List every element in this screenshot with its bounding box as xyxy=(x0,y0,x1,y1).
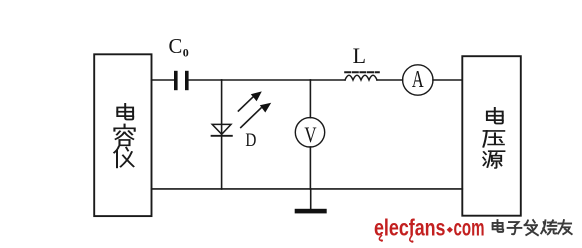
watermark: elecfans.com logo text xyxy=(374,215,485,243)
watermark: curl under f xyxy=(410,236,412,242)
wire: capacitance meter output to C0 left plate xyxy=(152,79,175,81)
capacitor C0 xyxy=(174,71,189,90)
voltmeter V xyxy=(295,118,324,147)
glyph 仪 (of 电容仪) xyxy=(114,147,133,168)
glyph 源 (of 电压源) xyxy=(483,151,504,168)
ground xyxy=(310,189,312,209)
svg-text:C: C xyxy=(169,34,183,58)
svg-text:elecfans: elecfans xyxy=(374,215,446,241)
inductor L (iron core dashed line) xyxy=(345,71,379,73)
svg-text:V: V xyxy=(304,122,316,147)
inductor L coil xyxy=(345,75,377,80)
instrument box U1: capacitance meter (电容仪) xyxy=(94,54,151,216)
svg-text:0: 0 xyxy=(183,46,189,60)
wire: bottom return rail, capacitance meter to voltage source xyxy=(152,188,463,190)
watermark glyph 烧 (of 电子发烧友) xyxy=(541,220,556,234)
svg-text:com: com xyxy=(454,215,485,241)
instrument box U2: voltage source (电压源) xyxy=(462,56,521,216)
glyph 压 (of 电压源) xyxy=(483,131,504,147)
label C0 xyxy=(169,34,189,60)
watermark: curl under e xyxy=(379,236,381,241)
wire: photodiode branch, node A down to bottom rail xyxy=(221,80,223,189)
wire: voltmeter branch, node B down to voltmeter xyxy=(309,80,311,118)
wire: node A to node B (voltmeter tap) xyxy=(222,79,311,81)
watermark glyph 电 (of 电子发烧友) xyxy=(493,220,504,232)
light arrows of photodiode D xyxy=(238,91,271,127)
wire: voltmeter to bottom rail xyxy=(309,147,311,189)
wire: node B to inductor L xyxy=(310,79,345,81)
glyph 电 (of 电容仪) xyxy=(117,104,133,120)
glyph 容 (of 电容仪) xyxy=(114,124,134,145)
watermark glyph 发 (of 电子发烧友) xyxy=(525,220,538,235)
wire: inductor to ammeter xyxy=(377,79,403,81)
svg-text:L: L xyxy=(353,43,366,68)
ammeter A xyxy=(403,65,433,95)
wire: C0 right plate to node A (photodiode branch tap) xyxy=(189,79,222,81)
watermark glyph 友 (of 电子发烧友) xyxy=(558,220,572,234)
photodiode D xyxy=(212,124,232,135)
svg-text:D: D xyxy=(245,131,256,151)
glyph 电 (of 电压源) xyxy=(487,108,503,124)
svg-text:A: A xyxy=(412,67,424,93)
watermark glyph 子 (of 电子发烧友) xyxy=(508,222,522,234)
wire: ammeter to voltage source xyxy=(433,79,462,81)
